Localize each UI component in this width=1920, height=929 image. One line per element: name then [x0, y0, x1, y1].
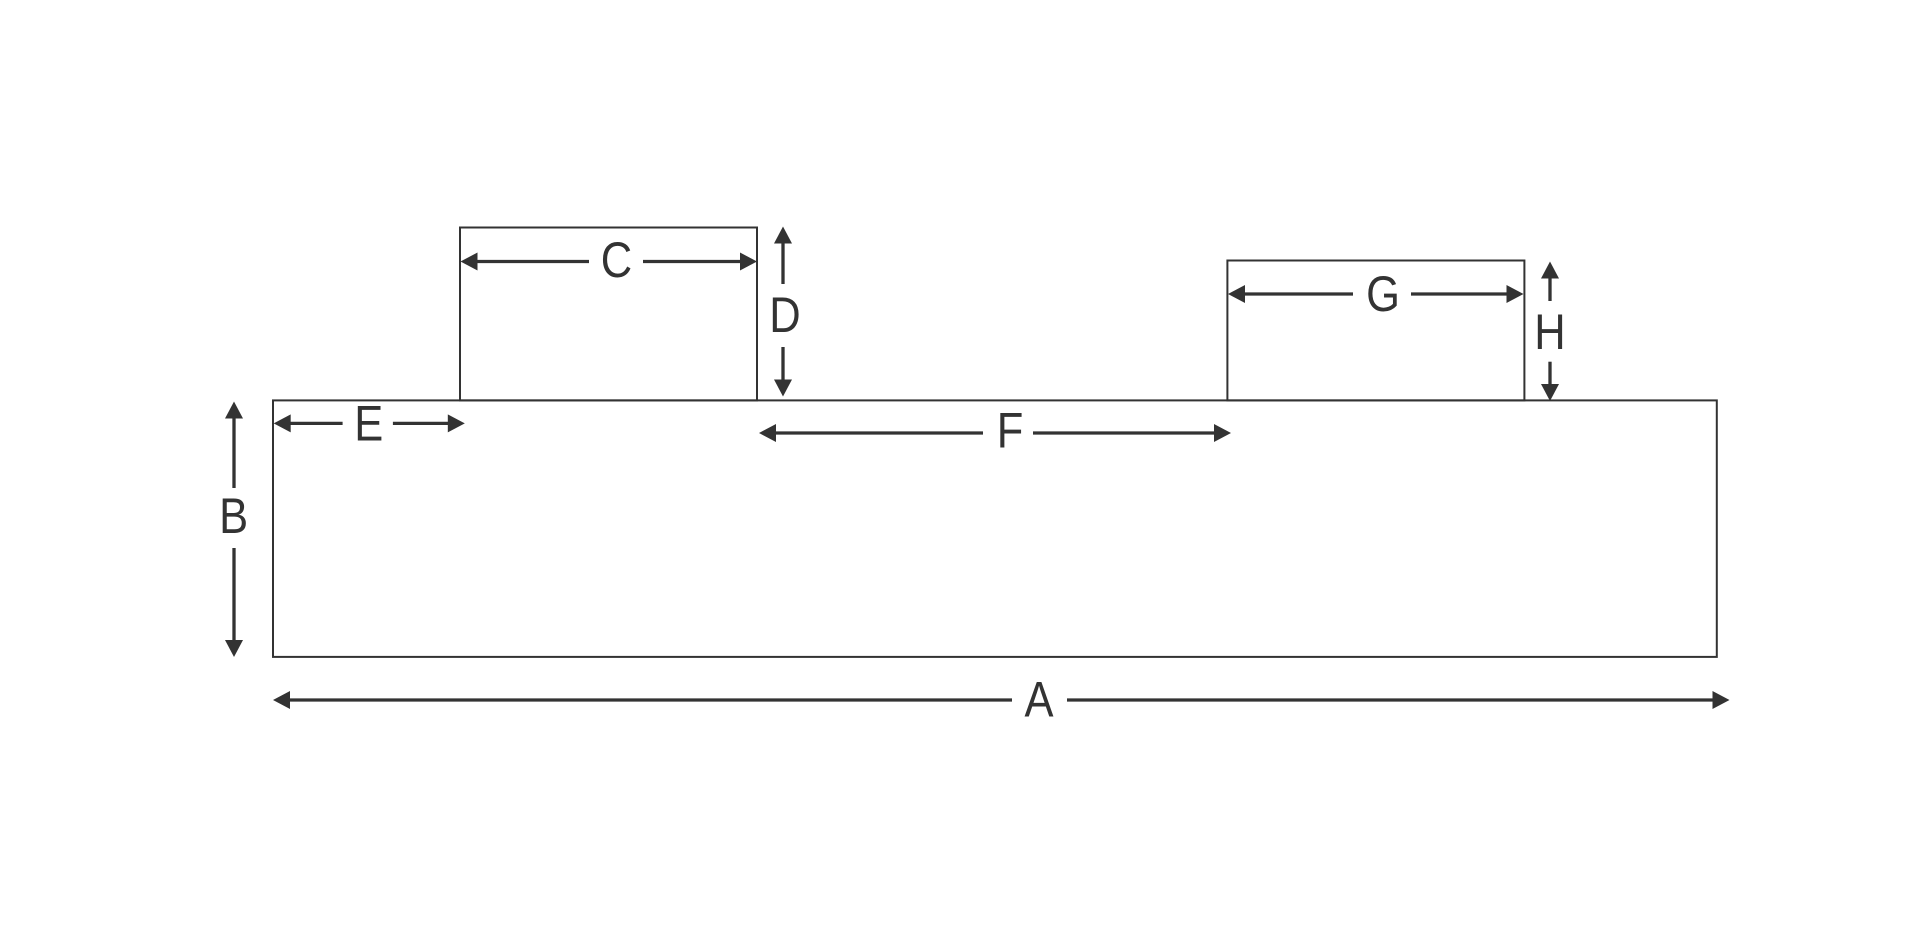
- svg-text:C: C: [601, 232, 632, 287]
- svg-text:H: H: [1534, 304, 1565, 359]
- svg-text:E: E: [354, 395, 383, 450]
- svg-text:D: D: [769, 287, 800, 342]
- svg-text:G: G: [1366, 266, 1400, 321]
- svg-text:B: B: [219, 488, 248, 543]
- svg-text:A: A: [1024, 672, 1054, 727]
- svg-text:F: F: [997, 403, 1024, 458]
